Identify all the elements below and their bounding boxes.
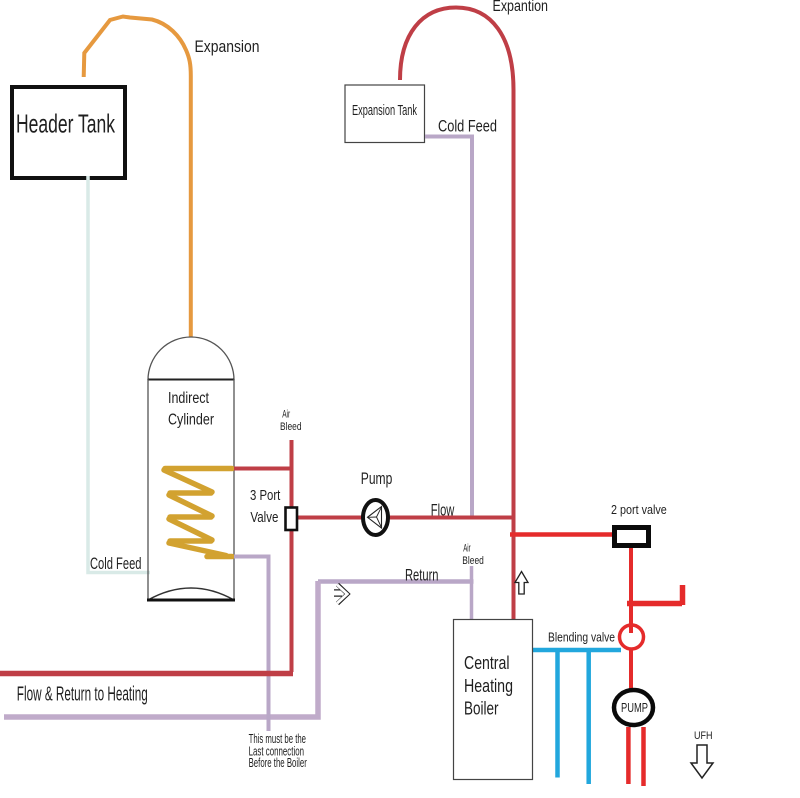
svg-text:PUMP: PUMP [621, 701, 648, 715]
svg-text:Cylinder: Cylinder [168, 412, 214, 429]
svg-text:Heating: Heating [464, 675, 513, 696]
svg-text:UFH: UFH [694, 730, 713, 742]
svg-text:Blending valve: Blending valve [548, 631, 615, 645]
svg-text:Boiler: Boiler [464, 698, 499, 719]
svg-text:Indirect: Indirect [168, 390, 210, 407]
svg-text:3 Port: 3 Port [250, 487, 281, 504]
svg-text:Bleed: Bleed [462, 555, 484, 567]
svg-text:Pump: Pump [361, 469, 393, 488]
svg-text:Air: Air [463, 542, 471, 554]
svg-text:Bleed: Bleed [280, 421, 302, 433]
svg-text:Before the Boiler: Before the Boiler [249, 756, 307, 770]
svg-text:Air: Air [282, 409, 290, 421]
svg-text:Expansion: Expansion [195, 37, 260, 56]
svg-text:Expantion: Expantion [493, 0, 549, 15]
svg-text:Flow: Flow [431, 502, 455, 520]
svg-text:Flow & Return to Heating: Flow & Return to Heating [17, 684, 148, 706]
svg-text:Return: Return [405, 566, 439, 585]
svg-text:Valve: Valve [250, 509, 278, 526]
svg-text:Header Tank: Header Tank [16, 109, 116, 139]
svg-text:Central: Central [464, 652, 510, 673]
svg-text:Expansion Tank: Expansion Tank [352, 102, 417, 119]
svg-text:Cold Feed: Cold Feed [90, 555, 142, 573]
svg-text:2 port valve: 2 port valve [611, 503, 667, 517]
svg-text:Cold Feed: Cold Feed [438, 118, 497, 136]
